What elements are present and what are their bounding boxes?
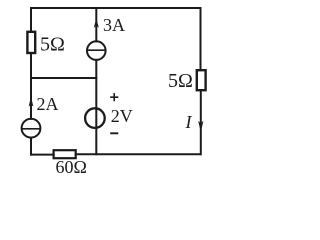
- wire bottom right segment: [76, 153, 201, 155]
- svg-text:5Ω: 5Ω: [168, 70, 193, 92]
- resistor R3 5ohm (right): [197, 70, 206, 90]
- wire top edge: [31, 7, 201, 9]
- wire middle branch top: [95, 8, 97, 41]
- label minus of V1: [110, 132, 118, 134]
- wire middle branch (3A to bottom, through 2V): [95, 60, 97, 154]
- wire left middle (R1 to 2A source): [30, 53, 32, 119]
- wire middle horizontal: [31, 77, 96, 79]
- resistor R2 60ohm (bottom): [54, 150, 76, 158]
- current source I2 3A: [87, 41, 106, 60]
- arrow of 2A source (up): [29, 97, 34, 107]
- wire right top: [200, 8, 202, 70]
- arrow of current I (down): [198, 121, 203, 132]
- wire right bottom: [200, 90, 202, 154]
- svg-text:5Ω: 5Ω: [40, 33, 65, 55]
- arrow of 3A source (up): [94, 18, 99, 27]
- wire bottom left segment: [31, 154, 54, 156]
- svg-text:3A: 3A: [103, 15, 125, 35]
- current source I1 2A: [22, 119, 41, 138]
- svg-text:60Ω: 60Ω: [56, 157, 87, 177]
- voltage source V1 2V: [85, 108, 105, 128]
- svg-text:I: I: [185, 112, 193, 132]
- wire left bottom: [30, 138, 32, 155]
- wire left top (to R1): [30, 8, 32, 32]
- svg-text:2A: 2A: [37, 94, 59, 114]
- label plus of V1: [110, 93, 118, 101]
- svg-text:2V: 2V: [111, 106, 133, 126]
- resistor R1 5ohm (left): [27, 32, 35, 53]
